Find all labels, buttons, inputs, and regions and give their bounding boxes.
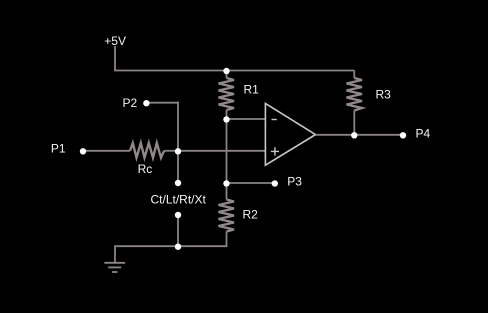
wire plus input (178, 150, 265, 152)
svg-text:P2: P2 (123, 96, 138, 110)
label Rc (138, 162, 153, 176)
svg-text:+5V: +5V (104, 34, 126, 48)
resistor R2 (219, 183, 235, 246)
wire +5V stub (114, 46, 116, 71)
junction R1-minus (223, 116, 229, 122)
port P1 terminal (80, 148, 86, 154)
wire P1 lead (83, 150, 130, 152)
label P3 (287, 174, 302, 188)
label R3 (376, 87, 392, 101)
junction bottom rail (175, 244, 181, 250)
wire node to Ct top (177, 151, 179, 183)
op-amp U1 (265, 103, 315, 165)
port P3 terminal (272, 180, 278, 186)
wire R3 top lead (353, 71, 355, 79)
svg-text:R1: R1 (244, 82, 260, 96)
wire P2 stub (146, 102, 179, 104)
label P1 (51, 141, 66, 155)
junction R2 top (223, 180, 229, 186)
label R2 (243, 208, 259, 222)
junction Rc-node (175, 148, 181, 154)
wire output (316, 134, 404, 136)
resistor R3 (347, 78, 363, 135)
svg-text:P3: P3 (287, 174, 302, 188)
svg-text:R2: R2 (243, 208, 259, 222)
resistor Rc (130, 143, 178, 158)
component Ct/Lt/Rt/Xt (gap between terminals) (177, 215, 179, 247)
wire P2 drop (177, 102, 179, 151)
resistor R1 (219, 71, 235, 120)
label Ct/Lt/Rt/Xt (151, 193, 207, 207)
label R1 (244, 82, 260, 96)
port P2 terminal (143, 100, 149, 106)
svg-text:Ct/Lt/Rt/Xt: Ct/Lt/Rt/Xt (151, 193, 207, 207)
node Ct top terminal (175, 180, 181, 186)
svg-text:P4: P4 (416, 127, 431, 141)
wire minus input (227, 118, 266, 120)
junction rail-R1 (223, 68, 229, 74)
port P4 terminal (400, 132, 406, 138)
svg-text:R3: R3 (376, 87, 392, 101)
junction output-R3 (351, 132, 357, 138)
wire bottom rail (114, 245, 227, 247)
wire P3 stub (227, 182, 276, 184)
wire top rail (114, 70, 354, 72)
wire R1 bottom to R2 top vertical (226, 119, 228, 183)
label P2 (123, 96, 138, 110)
power +5V label (104, 34, 126, 48)
label P4 (416, 127, 431, 141)
svg-text:P1: P1 (51, 141, 66, 155)
node Ct bottom terminal (175, 212, 181, 218)
ground (104, 263, 125, 272)
wire ground stub (114, 246, 116, 262)
svg-text:Rc: Rc (138, 162, 153, 176)
